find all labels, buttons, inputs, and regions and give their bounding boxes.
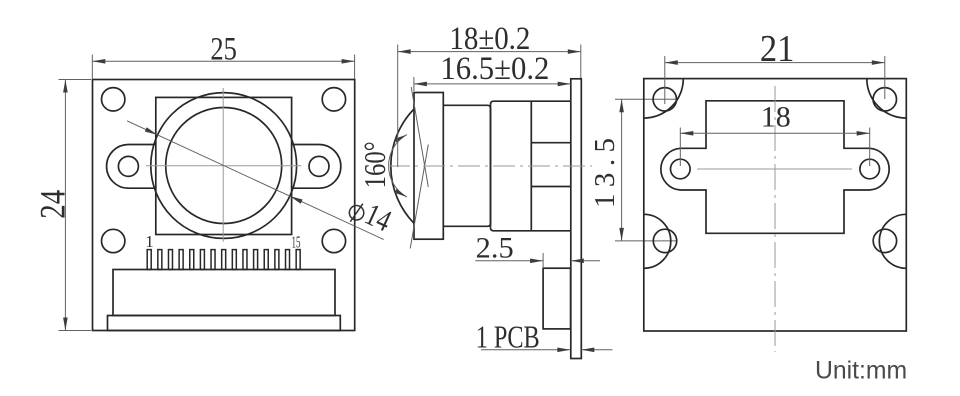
svg-text:16.5±0.2: 16.5±0.2: [440, 51, 549, 87]
svg-text:Unit:mm: Unit:mm: [815, 357, 907, 385]
svg-text:15: 15: [292, 232, 301, 251]
svg-text:25: 25: [210, 31, 237, 67]
svg-text:14: 14: [360, 196, 397, 238]
svg-text:1 PCB: 1 PCB: [476, 319, 540, 355]
svg-text:18: 18: [761, 100, 791, 133]
svg-text:24: 24: [33, 190, 73, 219]
svg-text:2.5: 2.5: [476, 231, 514, 264]
svg-text:1: 1: [145, 232, 154, 251]
svg-text:160°: 160°: [357, 141, 392, 188]
svg-text:13.5: 13.5: [589, 138, 621, 208]
svg-text:21: 21: [760, 28, 795, 70]
